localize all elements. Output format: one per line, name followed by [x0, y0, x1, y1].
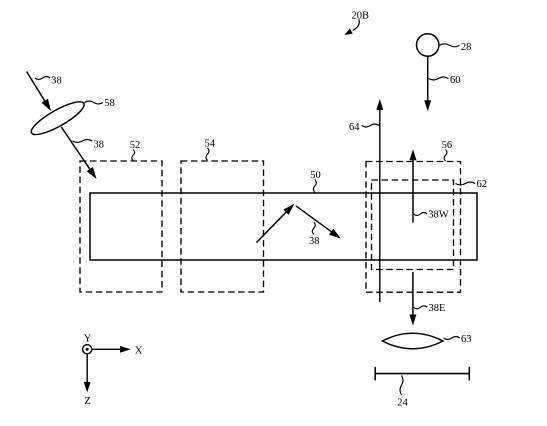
svg-text:24: 24	[397, 398, 408, 409]
svg-text:38: 38	[51, 76, 62, 87]
optical element 58 (tilted ellipse)	[28, 96, 88, 139]
svg-text:58: 58	[104, 98, 115, 109]
label 52 with leader	[130, 140, 141, 161]
svg-text:54: 54	[205, 139, 216, 150]
label 28 with leader	[440, 42, 472, 53]
label 56 with leader	[442, 140, 453, 161]
svg-text:52: 52	[130, 140, 141, 151]
svg-text:62: 62	[477, 179, 488, 190]
svg-text:50: 50	[310, 170, 321, 181]
svg-text:Y: Y	[84, 334, 92, 345]
svg-text:60: 60	[450, 75, 461, 86]
label 38W with leader	[414, 210, 449, 221]
component 28 (circle)	[417, 34, 439, 56]
region 62 (dashed inner)	[372, 180, 454, 270]
dimension line 24 with end ticks	[375, 367, 469, 381]
curved pointer arrow for 20B	[344, 19, 359, 35]
label 38 bounce with leader	[309, 222, 320, 247]
label 38E with leader	[414, 303, 446, 314]
ray 38 bounce down segment	[296, 206, 341, 239]
label 60 with leader	[429, 75, 461, 86]
label 24 with leader	[397, 376, 408, 409]
X axis arrow	[92, 346, 131, 353]
input coupler region 52 (dashed)	[80, 161, 162, 292]
ray 38 lower segment arrow	[61, 127, 96, 179]
ray 38 bounce up segment	[256, 204, 294, 243]
ray 38 upper segment arrow	[27, 72, 52, 112]
label 64 with leader	[349, 122, 379, 133]
line 64 with up arrow	[376, 99, 383, 302]
label Y	[84, 334, 92, 345]
label 50 with leader	[310, 170, 321, 193]
label X	[135, 346, 143, 357]
region 54 (dashed)	[181, 161, 264, 292]
arrow 38W	[410, 149, 417, 222]
svg-text:Z: Z	[84, 396, 90, 407]
output coupler region 56 (dashed outer)	[366, 162, 461, 293]
label 38 lower with leader	[73, 139, 105, 150]
svg-text:56: 56	[442, 140, 453, 151]
svg-text:38: 38	[94, 139, 105, 150]
waveguide 50	[90, 193, 477, 260]
svg-text:38: 38	[309, 236, 320, 247]
label 38 upper with leader	[35, 76, 62, 87]
arrow 60	[424, 56, 431, 111]
svg-text:64: 64	[349, 122, 360, 133]
figure label 20B	[352, 11, 370, 22]
label 62 tick and leader	[456, 179, 488, 190]
Z axis arrow	[84, 354, 91, 392]
svg-text:20B: 20B	[352, 11, 370, 22]
label Z	[84, 396, 90, 407]
svg-text:X: X	[135, 346, 143, 357]
svg-text:38E: 38E	[429, 303, 446, 314]
svg-text:38W: 38W	[428, 210, 449, 221]
arrow 38E	[409, 272, 416, 326]
svg-text:28: 28	[461, 42, 472, 53]
coordinate axes origin (Y out of page symbol)	[83, 345, 92, 354]
label 58 with leader	[85, 98, 115, 109]
lens 63	[382, 333, 443, 349]
label 63 with leader	[444, 334, 472, 345]
svg-text:63: 63	[461, 334, 472, 345]
label 54 with leader	[205, 139, 216, 161]
